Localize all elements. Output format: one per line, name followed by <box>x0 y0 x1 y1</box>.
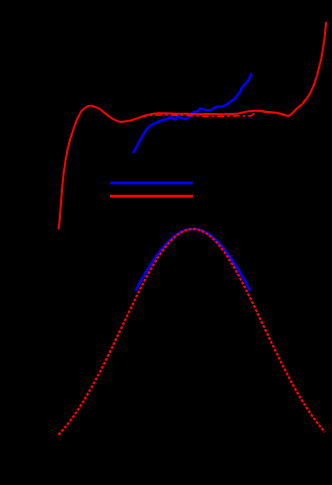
legend red line <box>110 195 193 198</box>
bottom plot: red dashed bell <box>59 229 325 435</box>
top plot: red dash-dot curve <box>140 99 306 117</box>
top plot: blue noisy curve <box>134 74 252 152</box>
bottom plot: blue solid bell segment <box>136 229 250 290</box>
top plot: red solid curve <box>59 23 327 229</box>
legend blue line <box>110 182 193 185</box>
